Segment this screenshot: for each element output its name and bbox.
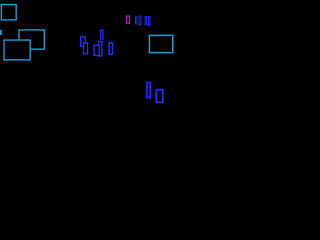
blue bar F2 (tall): [99, 42, 102, 56]
blue bar G4: [149, 16, 151, 25]
magenta bar M1: [127, 16, 130, 23]
blue bar G3: [145, 17, 147, 25]
blue bar G2: [139, 16, 141, 25]
blue box E1: [81, 37, 86, 46]
blue bar F1: [101, 30, 103, 39]
blue box E2 (overlaps E1): [84, 43, 88, 54]
blue box F3 (overlaps F2): [94, 45, 99, 55]
window outline B (middle cyan rect, behind): [19, 30, 44, 49]
blue bar G1: [136, 17, 138, 24]
window outline C (cyan rect overlapping B): [4, 40, 30, 60]
window outline S1 (top-left cyan square): [1, 5, 16, 20]
blue box H2 (bottom): [156, 90, 163, 103]
blue bar F4: [109, 43, 112, 54]
window outline D (right cyan rect): [149, 35, 172, 52]
blue bar H1 (bottom): [147, 83, 151, 98]
partial cyan bar at left edge: [0, 30, 2, 35]
